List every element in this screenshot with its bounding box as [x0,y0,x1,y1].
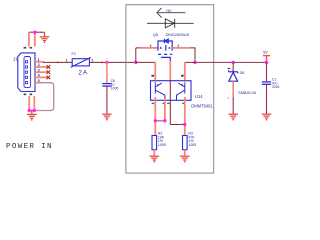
wire J1 pin4 stub [35,76,48,78]
J1 top mounting pads [24,47,32,49]
wire C6 top [106,62,108,82]
U14 pin number top right [181,75,184,77]
wire drain corner [190,48,195,63]
wire U14 base left [164,98,166,121]
wire U14 pin left top inside [154,81,156,84]
wire shield drop right [34,32,36,46]
U14 left PNP [155,83,165,100]
wire branch to U14 right [185,61,195,63]
junction D6 [232,61,235,64]
Q5 arrow right [168,47,170,49]
wire R3 bottom [184,150,186,156]
wire J1 pin1 to fuse [43,61,72,63]
wire gate drop [169,61,171,81]
junction box entry [134,61,137,64]
fuse F1 diagonal [71,57,91,67]
wire base tie [155,120,165,122]
wire U14 pin left top [154,62,156,80]
svg-text:3: 3 [150,44,152,48]
junction base tie left [154,119,157,122]
wire shield drop left [28,32,30,46]
wire output rail [195,61,267,63]
wire C1 ground stub [266,110,268,114]
wire C1 top [266,62,268,81]
svg-text:F1: F1 [72,52,76,56]
svg-text:Q5: Q5 [153,32,159,37]
resistor R3 [183,136,188,150]
svg-text:POWER IN: POWER IN [6,143,53,151]
wire gate pass-through [169,81,171,125]
junction drain rail [193,61,196,64]
diode D6 zener [229,70,238,81]
junction R3 top [183,123,186,126]
U14 bottom pin marks [152,103,185,104]
wire J1 pin2 stub [35,66,48,68]
dual transistor U14 body [151,81,192,101]
ground D6 [228,114,238,120]
U14 left PNP arrow [157,84,159,86]
svg-text:D6: D6 [240,71,245,75]
svg-text:2A: 2A [78,69,88,76]
ground C1 [262,114,272,120]
svg-text:5V: 5V [263,51,268,55]
wire fuse to C6 junction [89,61,135,63]
svg-text:DMMT5401: DMMT5401 [191,104,213,109]
wire gnd tie [29,110,34,112]
no-connect X pin3 [47,70,51,74]
ground C6 [102,114,112,120]
J1 bottom mounting pads [24,94,32,96]
svg-text:J1: J1 [13,57,18,62]
wire GND top-left horizontal [29,31,45,33]
wire C1 bottom [266,85,268,110]
wire U14 pin to R3 [184,97,186,136]
pin end dot fuse pin2 [101,62,103,64]
svg-text:3216: 3216 [272,85,280,89]
wire J1 pin5 stub [35,82,41,84]
wire pin5 ground loop [34,83,53,111]
wire D6 bottom [232,97,234,114]
wire U14 pin to R2 [154,97,156,136]
connector J1 contacts [25,61,27,84]
no-connect X pin4 [47,76,51,80]
capacitor C1 [262,82,271,84]
wire J1 pin3 stub [35,71,48,73]
junction top-left [33,31,36,34]
ground R2 [150,156,160,162]
wire D6 top [232,62,234,69]
D6 pin 1 red stub [232,70,234,72]
junction base tie right [163,119,166,122]
ground top-left [44,32,46,36]
junction C6 [105,61,108,64]
wire J1 shield drop bottom right [33,96,35,111]
power section box [126,5,214,173]
wire Q5 source stub [141,47,158,49]
U14 pin number top left [151,75,154,77]
svg-text:1005: 1005 [111,87,119,91]
fuse F1 body [72,59,89,66]
D6 pin 1 mark [228,68,231,69]
svg-text:DMG2305UX: DMG2305UX [166,32,190,37]
svg-text:1: 1 [66,58,68,62]
wire rail to U14 left [136,61,156,63]
capacitor C6 [102,84,111,87]
power 5V symbol [263,56,270,63]
transistor Q5 MOSFET [158,39,173,61]
svg-text:SMBJ5.0A: SMBJ5.0A [238,91,256,95]
U14 right PNP [177,83,185,100]
wire R2 bottom [153,150,155,156]
svg-text:1005: 1005 [158,143,166,147]
wire to Q5 pin3 [136,47,158,49]
ground R3 [180,156,190,162]
junction J1 gnd right [33,109,36,112]
pin end dot fuse pin1 [57,62,59,64]
wire J1 pin1 stub [35,61,44,63]
wire D6 middle [232,81,234,97]
U14 right PNP arrow [181,84,183,86]
wire riser to Q5 source [135,48,137,63]
svg-text:U14: U14 [195,94,203,99]
wire J1 shield drop bottom left [28,96,30,111]
resistor R2 [152,136,157,150]
wire U14 pin right top inside [184,81,186,84]
connector J1 body [18,53,35,92]
diode annotation [147,19,194,28]
svg-text:+5V: +5V [166,9,173,13]
wire Q5 drain right [172,47,190,49]
no-connect X pin2 [47,65,51,69]
Q5 arrow left [160,47,162,49]
wire U14 pin right top [184,62,186,80]
+5V arrow annotation [157,8,186,18]
wire C6 bottom [106,87,108,114]
junction J1 gnd left [28,109,31,112]
connector J1 slot [24,57,31,88]
ground J1 [31,111,33,115]
svg-text:1005: 1005 [188,143,196,147]
svg-text:2: 2 [92,58,94,62]
junction C1 [265,61,268,64]
wire gate to R3 [170,124,185,126]
